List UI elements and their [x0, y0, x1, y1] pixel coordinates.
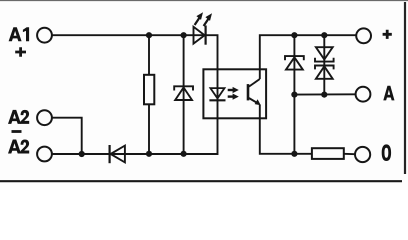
opto coupling arrow 2 [228, 94, 239, 100]
diode D1 cathode bar (points left) [108, 145, 110, 163]
phototransistor emitter lead [249, 98, 258, 103]
label A (right) [383, 86, 394, 101]
resistor R1 (vertical) [144, 75, 154, 105]
node junction bottom rail / resistor [146, 151, 152, 157]
zener diode Z1 (bar with bent ends + triangle) [174, 86, 193, 100]
resistor R2 (horizontal) [312, 148, 344, 159]
wire A rail [294, 93, 355, 95]
wire diode branch 1 [293, 35, 295, 154]
wire upper A2 branch [52, 118, 82, 154]
frame top border [0, 0, 408, 2]
node junction top rail / resistor branch [146, 32, 152, 38]
label A2 (lower) [8, 140, 29, 154]
wire resistor R2 to terminal 0 [344, 153, 355, 155]
wire resistor branch upper [148, 35, 150, 75]
terminal 0 [355, 147, 370, 162]
LED D2 triangle [194, 27, 205, 44]
frame right border [404, 2, 406, 174]
terminal A1 [37, 28, 52, 43]
node junction bottom rail / zener [181, 151, 187, 157]
label A2 (upper) [8, 110, 29, 124]
wire zener branch [183, 35, 185, 154]
wire emitter down and bottom right rail [260, 105, 312, 154]
opto coupling arrow 1 [228, 87, 239, 93]
LED D2 emission arrows [195, 12, 212, 26]
label A1 [9, 27, 30, 41]
optocoupler U1 box [203, 69, 266, 118]
wire suppressor branch [323, 35, 325, 94]
opto LED cathode bar [209, 99, 225, 101]
label 0 (right) [382, 144, 391, 161]
node junction top right rail / suppressor branch [321, 32, 327, 38]
terminal + [356, 28, 371, 43]
opto LED triangle (points down) [210, 88, 224, 98]
node junction bottom right rail [291, 151, 297, 157]
phototransistor Q1 base bar [247, 84, 250, 100]
node junction A rail / suppressor [321, 92, 327, 98]
node junction A rail / diode branch 1 [291, 92, 297, 98]
label + (under A1) [15, 47, 26, 56]
terminal A2 upper [37, 110, 52, 125]
suppressor diode pair bottom (bar + triangle up) [315, 66, 334, 79]
wire collector up and right rail to + [260, 35, 356, 79]
label + (right) [383, 30, 392, 39]
wire bottom left rail [52, 153, 218, 155]
node junction bottom rail / A2 branch [79, 151, 85, 157]
diode D3 (bar with bent ends + triangle) [285, 56, 304, 70]
LED D2 cathode bar [205, 26, 207, 45]
wire top rail left (A1 to LED to box corner) [52, 35, 218, 154]
suppressor diode pair top (triangle down + bar) [315, 47, 334, 61]
label minus (under upper A2) [12, 130, 22, 133]
terminal A [356, 87, 371, 102]
wire resistor branch lower [148, 104, 150, 154]
phototransistor emitter arrowhead [255, 99, 261, 105]
phototransistor collector lead [249, 79, 260, 87]
frame bottom border [0, 180, 402, 182]
node junction top rail / zener branch [181, 32, 187, 38]
node junction top right rail / diode branch 1 [291, 32, 297, 38]
diode D1 triangle [111, 146, 125, 163]
terminal A2 lower [37, 147, 52, 162]
